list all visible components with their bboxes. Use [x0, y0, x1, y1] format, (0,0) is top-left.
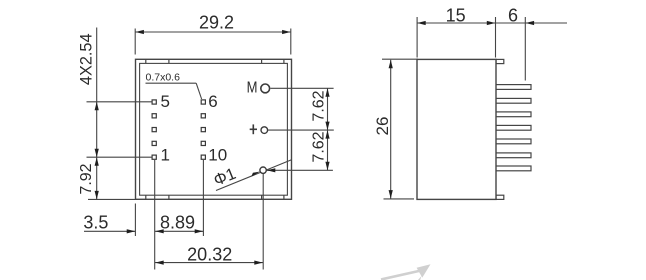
svg-text:M: M [247, 80, 258, 97]
svg-text:4X2.54: 4X2.54 [77, 33, 95, 85]
svg-text:7.92: 7.92 [78, 163, 95, 194]
svg-text:10: 10 [208, 146, 227, 165]
svg-text:6: 6 [508, 6, 518, 26]
svg-text:26: 26 [373, 117, 392, 136]
svg-text:7.62: 7.62 [310, 131, 327, 162]
svg-text:8.89: 8.89 [160, 212, 195, 232]
svg-text:29.2: 29.2 [199, 12, 234, 32]
svg-text:6: 6 [208, 92, 217, 111]
svg-text:7.62: 7.62 [310, 90, 327, 121]
svg-text:3.5: 3.5 [83, 212, 108, 232]
svg-text:15: 15 [446, 6, 466, 26]
svg-text:20.32: 20.32 [187, 244, 232, 264]
svg-text:0.7x0.6: 0.7x0.6 [146, 72, 181, 84]
svg-text:5: 5 [161, 92, 170, 111]
svg-text:1: 1 [161, 146, 170, 165]
